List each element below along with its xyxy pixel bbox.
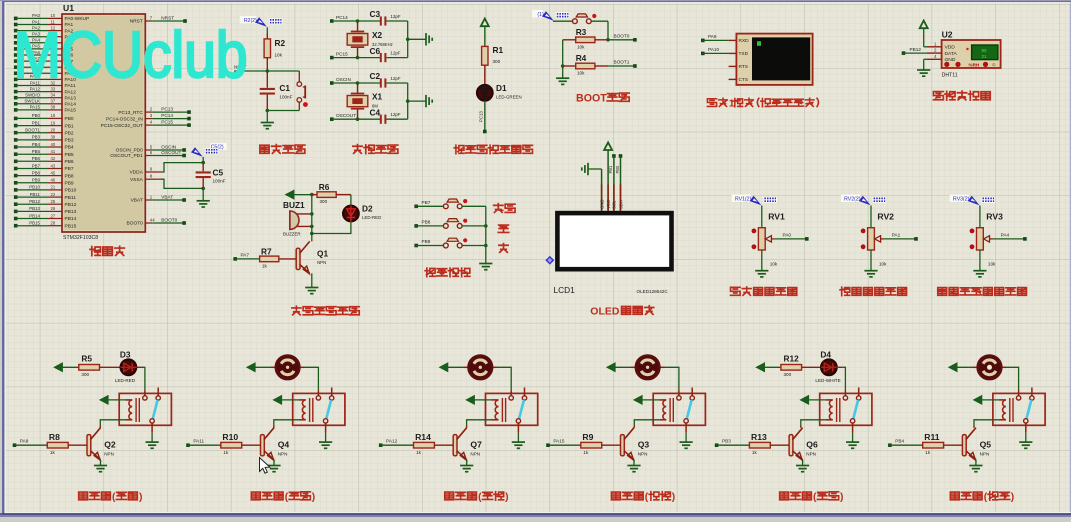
label 声光报警电路 bbox=[292, 306, 359, 315]
svg-text:PC14: PC14 bbox=[161, 113, 173, 118]
svg-text:): ) bbox=[505, 492, 508, 503]
svg-text:SCL: SCL bbox=[612, 200, 617, 209]
wire coil bottom to transistor bbox=[467, 420, 492, 426]
svg-text:1k: 1k bbox=[752, 450, 758, 455]
MCU VDDA VSSA pins bbox=[129, 167, 161, 183]
ground reset bbox=[261, 111, 274, 129]
power symbol OLED VCC bbox=[604, 142, 612, 213]
wire D4 to relay bbox=[837, 367, 846, 390]
label 继电器(补光) bbox=[780, 492, 844, 503]
svg-text:Q5: Q5 bbox=[980, 440, 992, 450]
svg-text:RV3(2): RV3(2) bbox=[953, 197, 970, 203]
svg-text:R10: R10 bbox=[222, 432, 238, 442]
ground relay contact bbox=[1019, 433, 1032, 449]
svg-text:PC15: PC15 bbox=[161, 120, 173, 125]
wire motor to relay bbox=[1006, 367, 1019, 390]
svg-text:PB14: PB14 bbox=[65, 216, 77, 222]
svg-text:(: ( bbox=[645, 492, 649, 503]
ground RV2 bbox=[864, 250, 877, 277]
resistor R4 10k bbox=[563, 53, 608, 75]
svg-text:Q6: Q6 bbox=[806, 440, 818, 450]
capacitor C5 100nF bbox=[196, 163, 226, 189]
svg-text:PC13_RTC: PC13_RTC bbox=[118, 110, 143, 116]
relay RL4 bbox=[653, 388, 705, 433]
svg-text:LED-WHITE: LED-WHITE bbox=[815, 378, 840, 383]
svg-text:RV1: RV1 bbox=[768, 212, 785, 222]
wire coil top to power bbox=[100, 396, 125, 405]
svg-text:LED-GREEN: LED-GREEN bbox=[496, 95, 522, 100]
blue marker diamond bbox=[545, 256, 554, 265]
svg-text:OLED: OLED bbox=[590, 307, 620, 318]
svg-text:PB8: PB8 bbox=[32, 170, 41, 175]
svg-text:PB1: PB1 bbox=[32, 120, 41, 125]
ground Q7 emitter bbox=[460, 460, 473, 472]
svg-text:LED-RED: LED-RED bbox=[362, 215, 381, 220]
wire coil bottom to transistor bbox=[274, 420, 299, 426]
svg-text:): ) bbox=[139, 492, 142, 503]
wire motor to relay bbox=[664, 367, 679, 390]
svg-text:PA0: PA0 bbox=[783, 233, 792, 238]
resistor R13 1k bbox=[715, 432, 789, 455]
svg-text:10k: 10k bbox=[988, 261, 996, 266]
svg-text:1k: 1k bbox=[925, 450, 931, 455]
svg-text:X1: X1 bbox=[372, 92, 383, 102]
svg-text:BOOT0: BOOT0 bbox=[614, 34, 630, 39]
svg-text:1k: 1k bbox=[416, 450, 422, 455]
power symbol DHT11 bbox=[920, 21, 928, 47]
svg-text:PA12: PA12 bbox=[386, 439, 398, 444]
resistor R12 300 bbox=[781, 354, 802, 377]
MCU U1 right pin wires NRST PC13-PC15 OSC VBAT BOOT0 bbox=[101, 16, 191, 227]
svg-text:VBAT: VBAT bbox=[131, 198, 143, 204]
svg-text:DHT11: DHT11 bbox=[942, 73, 958, 79]
label 氨气数据调节 bbox=[840, 287, 907, 295]
power symbol motor bbox=[949, 363, 974, 372]
wire D2 to buzzer rail bbox=[310, 221, 351, 235]
svg-text:300: 300 bbox=[784, 372, 792, 377]
svg-text:NPN: NPN bbox=[470, 451, 480, 456]
svg-text:300: 300 bbox=[81, 372, 89, 377]
ground Q1 emitter bbox=[305, 273, 318, 293]
svg-text:BOOT1: BOOT1 bbox=[25, 128, 40, 133]
label 设置 (set) bbox=[494, 204, 515, 213]
ground RV3 bbox=[973, 250, 986, 277]
svg-text:OSCOUT_PD1: OSCOUT_PD1 bbox=[110, 153, 143, 159]
svg-text:PB13: PB13 bbox=[65, 209, 77, 215]
svg-text:OSCOUT: OSCOUT bbox=[161, 150, 181, 155]
svg-text:PA11: PA11 bbox=[193, 439, 204, 444]
svg-text:PC13: PC13 bbox=[479, 111, 484, 122]
transistor Q3 NPN bbox=[621, 425, 650, 460]
svg-text:PB14: PB14 bbox=[29, 213, 40, 218]
svg-text:(1): (1) bbox=[537, 12, 544, 18]
ground relay contact bbox=[146, 433, 159, 449]
label 减 (minus) bbox=[499, 244, 508, 253]
wire switch to BOOT0 node bbox=[606, 21, 610, 41]
ground relay contact bbox=[319, 433, 332, 449]
svg-text:PB6: PB6 bbox=[65, 159, 74, 165]
svg-text:VCC: VCC bbox=[606, 200, 611, 209]
wire VDDA to C5 top node bbox=[161, 161, 205, 172]
wire coil bottom to transistor bbox=[801, 420, 826, 426]
power symbol R5 bbox=[54, 363, 79, 372]
svg-text:80: 80 bbox=[982, 48, 987, 53]
ground relay contact bbox=[846, 433, 859, 449]
MCU U1 left pin wires and labels bbox=[14, 13, 89, 229]
voltage probe (1) bbox=[532, 10, 569, 21]
svg-text:X2: X2 bbox=[372, 30, 383, 40]
svg-text:R1: R1 bbox=[493, 45, 504, 55]
svg-text:): ) bbox=[672, 492, 675, 503]
svg-text:R4: R4 bbox=[576, 53, 587, 63]
svg-text:10k: 10k bbox=[879, 261, 887, 266]
svg-text:PA15: PA15 bbox=[65, 108, 77, 114]
label 继电器(降温) bbox=[251, 492, 315, 503]
svg-text:PB8: PB8 bbox=[65, 173, 74, 179]
label 主芯片 (main chip) bbox=[90, 246, 124, 255]
ground BOOT bbox=[556, 66, 569, 84]
svg-text:100nF: 100nF bbox=[213, 179, 226, 184]
transistor Q5 NPN bbox=[962, 425, 991, 460]
svg-text:38: 38 bbox=[51, 105, 56, 110]
svg-text:PA8: PA8 bbox=[20, 439, 29, 444]
motor bbox=[271, 356, 304, 380]
svg-text:20: 20 bbox=[51, 128, 56, 133]
svg-text:PC14-OSC32_IN: PC14-OSC32_IN bbox=[106, 116, 143, 122]
label 二氧化碳数据调节 bbox=[938, 288, 1027, 296]
svg-text:NPN: NPN bbox=[317, 260, 326, 265]
MCUclub watermark bbox=[14, 18, 248, 91]
label 继电器(加湿) bbox=[445, 492, 509, 503]
svg-text:RTS: RTS bbox=[739, 64, 749, 70]
svg-text:22: 22 bbox=[51, 192, 56, 197]
svg-text:(: ( bbox=[813, 492, 817, 503]
wire coil top to power bbox=[466, 396, 491, 405]
LED D1 LED-GREEN bbox=[477, 83, 522, 101]
svg-text:100nF: 100nF bbox=[279, 95, 292, 100]
voltage probe RV3(2) bbox=[950, 195, 995, 206]
wire R6 to D2 bbox=[350, 195, 352, 206]
svg-text:C4: C4 bbox=[370, 107, 381, 117]
svg-text:D2: D2 bbox=[362, 204, 373, 214]
svg-text:PB11: PB11 bbox=[65, 195, 77, 201]
svg-text:PA7: PA7 bbox=[241, 253, 250, 258]
svg-text:BUZZER: BUZZER bbox=[283, 232, 301, 237]
label 加 (plus) bbox=[498, 225, 509, 232]
svg-text:PB7: PB7 bbox=[32, 163, 41, 168]
svg-text:LED-RED: LED-RED bbox=[115, 378, 136, 383]
BOOT switch push button bbox=[553, 14, 608, 24]
svg-text:PB5: PB5 bbox=[32, 149, 41, 154]
voltage probe RV1(2) bbox=[732, 195, 777, 206]
svg-text:C5: C5 bbox=[213, 168, 224, 178]
svg-text:PB9: PB9 bbox=[422, 239, 431, 244]
wire pot wiper to PA1 bbox=[884, 233, 918, 241]
svg-text:1k: 1k bbox=[583, 450, 589, 455]
svg-text:D4: D4 bbox=[820, 349, 831, 359]
mouse cursor bbox=[260, 458, 270, 474]
svg-text:): ) bbox=[1011, 492, 1014, 503]
ground Q4 emitter bbox=[267, 460, 280, 472]
label 温湿度模块 bbox=[933, 91, 990, 100]
OLED display LCD1 bbox=[554, 213, 672, 295]
svg-text:TXD: TXD bbox=[739, 51, 749, 57]
transistor Q7 NPN bbox=[453, 425, 482, 460]
crystal X2 32.768KHz with C3 C6 bbox=[330, 9, 432, 62]
svg-text:PB12: PB12 bbox=[29, 199, 40, 204]
svg-text:SWDIO: SWDIO bbox=[25, 93, 40, 98]
svg-text:PB0: PB0 bbox=[615, 165, 620, 173]
svg-text:PB0: PB0 bbox=[65, 116, 74, 122]
svg-text:MCUclub: MCUclub bbox=[14, 18, 248, 91]
power symbol for D1 bbox=[481, 19, 489, 47]
wire pot wiper to PA0 bbox=[775, 233, 809, 241]
resistor R8 1k bbox=[13, 432, 87, 455]
svg-text:BOOT1: BOOT1 bbox=[614, 60, 630, 65]
LED D4 LED-WHITE bbox=[802, 349, 841, 382]
transistor Q4 NPN bbox=[261, 425, 290, 460]
ground Q5 emitter bbox=[969, 460, 982, 472]
wire buzzer rail vertical bbox=[311, 195, 313, 241]
virtual terminal (serial window) bbox=[729, 34, 813, 85]
svg-text:PA9: PA9 bbox=[708, 34, 717, 39]
svg-text:OLED128642C: OLED128642C bbox=[637, 289, 669, 294]
svg-text:CTS: CTS bbox=[739, 77, 749, 83]
resistor R10 1k bbox=[186, 432, 260, 455]
svg-text:Q1: Q1 bbox=[317, 249, 328, 259]
svg-text:NPN: NPN bbox=[980, 451, 990, 456]
svg-text:R2: R2 bbox=[275, 38, 286, 48]
power symbol motor bbox=[247, 363, 272, 372]
svg-text:21: 21 bbox=[982, 54, 987, 59]
svg-text:BUZ1: BUZ1 bbox=[283, 200, 305, 210]
wire SDA PB0 bbox=[615, 154, 623, 213]
svg-text:PC15: PC15 bbox=[336, 51, 348, 56]
relay RL6 bbox=[993, 388, 1045, 433]
svg-text:RV2: RV2 bbox=[877, 212, 894, 222]
svg-text:(: ( bbox=[478, 492, 482, 503]
svg-text:PB7: PB7 bbox=[65, 166, 74, 172]
wire VSSA to C5 bottom node bbox=[161, 179, 205, 190]
svg-text:PB10: PB10 bbox=[29, 185, 40, 190]
svg-text:40: 40 bbox=[51, 142, 56, 147]
svg-text:OSCIN: OSCIN bbox=[161, 145, 176, 150]
svg-text:DATA: DATA bbox=[945, 51, 958, 57]
svg-text:%RH: %RH bbox=[969, 62, 980, 67]
label 继电器(除湿) bbox=[611, 492, 675, 503]
ground below C5 bbox=[197, 188, 210, 207]
wire PA9 to RXD bbox=[701, 34, 729, 42]
svg-text:PB15: PB15 bbox=[65, 223, 77, 229]
wire motor to relay bbox=[496, 367, 511, 390]
wire coil bottom to transistor bbox=[100, 420, 125, 426]
wire reset bottom bbox=[266, 109, 300, 113]
MCU U1 STM32F103C8 bbox=[62, 3, 145, 241]
svg-text:19: 19 bbox=[51, 120, 56, 125]
svg-text:PA15: PA15 bbox=[553, 439, 565, 444]
svg-text:U2: U2 bbox=[942, 30, 953, 40]
label OLED显示屏 bbox=[590, 306, 654, 318]
LED D3 LED-RED bbox=[100, 349, 137, 382]
svg-text:PB6: PB6 bbox=[32, 156, 41, 161]
svg-text:PB3: PB3 bbox=[722, 439, 731, 444]
svg-text:10k: 10k bbox=[770, 261, 778, 266]
svg-text:(: ( bbox=[984, 492, 988, 503]
svg-text:RV2(2): RV2(2) bbox=[844, 197, 861, 203]
wire pot wiper to PA4 bbox=[993, 233, 1027, 241]
resistor R3 10k bbox=[563, 27, 608, 49]
svg-text:12pF: 12pF bbox=[391, 76, 401, 81]
svg-text:SWCLK: SWCLK bbox=[24, 99, 40, 104]
ground RV1 bbox=[755, 250, 768, 277]
ground Q6 emitter bbox=[796, 460, 809, 472]
wire coil top to power bbox=[273, 396, 298, 405]
label 程序运行指示灯 (program run indicator) bbox=[454, 145, 532, 153]
svg-text:12pF: 12pF bbox=[391, 14, 401, 19]
svg-text:PC15-OSC32_OUT: PC15-OSC32_OUT bbox=[101, 123, 143, 129]
svg-text:46: 46 bbox=[51, 178, 56, 183]
wire coil top to power bbox=[800, 396, 825, 405]
svg-text:VDD: VDD bbox=[945, 45, 956, 51]
ground OLED GND pin bbox=[582, 163, 602, 214]
svg-text:RV3: RV3 bbox=[986, 212, 1003, 222]
svg-text:PC13: PC13 bbox=[161, 107, 173, 112]
svg-text:⊙: ⊙ bbox=[992, 62, 996, 67]
svg-text:41: 41 bbox=[51, 149, 56, 154]
voltage probe R2(2) bbox=[240, 16, 283, 27]
svg-text:NPN: NPN bbox=[806, 451, 816, 456]
svg-text:GND: GND bbox=[599, 199, 604, 209]
wire coil top to power bbox=[634, 396, 659, 405]
svg-text:PB2: PB2 bbox=[65, 130, 74, 136]
svg-text:PA15: PA15 bbox=[30, 105, 41, 110]
svg-text:PB4: PB4 bbox=[895, 439, 904, 444]
svg-text:PA14: PA14 bbox=[65, 102, 77, 108]
buzzer BUZ1 bbox=[283, 200, 314, 237]
svg-text:PA1: PA1 bbox=[892, 233, 901, 238]
svg-text:VSSA: VSSA bbox=[130, 177, 144, 183]
voltage probe RV2(2) bbox=[841, 195, 886, 206]
ground DHT11 bbox=[917, 59, 930, 76]
svg-text:27: 27 bbox=[51, 213, 56, 218]
push button PB7 bbox=[414, 199, 485, 209]
label 光照数据调节 bbox=[731, 287, 797, 295]
wire R3 to R4 left rail bbox=[561, 40, 565, 68]
svg-text:R7: R7 bbox=[261, 246, 272, 256]
svg-text:C3: C3 bbox=[370, 9, 381, 19]
svg-text:PB15: PB15 bbox=[29, 221, 40, 226]
svg-text:Q3: Q3 bbox=[638, 440, 650, 450]
svg-text:STM32F103C8: STM32F103C8 bbox=[63, 235, 98, 241]
svg-text:OSCIN_PD0: OSCIN_PD0 bbox=[116, 148, 144, 154]
svg-text:BOOT0: BOOT0 bbox=[161, 218, 177, 223]
svg-text:C6: C6 bbox=[370, 46, 381, 56]
svg-text:1k: 1k bbox=[262, 264, 268, 269]
resistor R7 1k bbox=[233, 246, 296, 268]
wire PA10 to TXD bbox=[701, 47, 729, 55]
ground buttons bbox=[479, 264, 492, 270]
svg-text:44: 44 bbox=[150, 218, 155, 223]
wire coil bottom to transistor bbox=[974, 420, 999, 426]
svg-text:1k: 1k bbox=[50, 450, 56, 455]
svg-text:26: 26 bbox=[51, 206, 56, 211]
svg-text:PB11: PB11 bbox=[30, 192, 41, 197]
svg-text:PB4: PB4 bbox=[32, 142, 41, 147]
push button PB8 bbox=[414, 219, 485, 229]
svg-text:Q2: Q2 bbox=[104, 440, 116, 450]
voltage probe C5(2) bbox=[191, 143, 227, 163]
svg-text:PB5: PB5 bbox=[65, 152, 74, 158]
svg-text:VBAT: VBAT bbox=[161, 195, 173, 200]
svg-text:PB1: PB1 bbox=[65, 123, 74, 129]
svg-text:R13: R13 bbox=[751, 432, 767, 442]
resistor R14 1k bbox=[379, 432, 453, 455]
wire BOOT1 bbox=[608, 60, 637, 68]
label 继电器(通风) bbox=[950, 492, 1014, 503]
relay RL2 bbox=[293, 388, 345, 433]
svg-text:SDA: SDA bbox=[618, 200, 623, 209]
power symbol buzzer bbox=[286, 190, 314, 199]
svg-text:12pF: 12pF bbox=[391, 112, 401, 117]
motor bbox=[631, 356, 664, 380]
potentiometer RV2 10k bbox=[861, 206, 894, 267]
svg-text:PB9: PB9 bbox=[65, 181, 74, 187]
svg-text:NPN: NPN bbox=[104, 451, 114, 456]
svg-text:R5: R5 bbox=[81, 354, 92, 364]
label 继电器(加热) bbox=[79, 492, 143, 503]
capacitor C1 100nF bbox=[260, 71, 293, 111]
wire button common rail bbox=[484, 206, 488, 263]
svg-text:PB9: PB9 bbox=[32, 178, 41, 183]
wire coil top to power bbox=[974, 396, 999, 405]
svg-text:(: ( bbox=[285, 492, 289, 503]
svg-text:(: ( bbox=[112, 492, 116, 503]
svg-text:Q4: Q4 bbox=[278, 440, 290, 450]
crystal X1 8M with C2 C4 bbox=[330, 71, 432, 124]
svg-text:PB13: PB13 bbox=[29, 206, 40, 211]
motor bbox=[464, 356, 497, 380]
resistor R6 300 bbox=[312, 182, 351, 204]
svg-text:R8: R8 bbox=[49, 432, 60, 442]
resistor R1 300 bbox=[482, 45, 504, 85]
svg-text:25: 25 bbox=[51, 199, 56, 204]
label 独立按键 (independent keys) bbox=[425, 268, 470, 277]
svg-text:C2: C2 bbox=[370, 71, 381, 81]
svg-text:PB4: PB4 bbox=[65, 145, 74, 151]
svg-text:1k: 1k bbox=[223, 450, 229, 455]
transistor Q1 NPN bbox=[296, 240, 328, 274]
svg-text:34: 34 bbox=[51, 93, 56, 98]
LED D2 LED-RED bbox=[343, 204, 381, 222]
resistor R11 1k bbox=[888, 432, 962, 455]
wire node NRST bbox=[234, 65, 299, 73]
svg-text:): ) bbox=[840, 492, 843, 503]
svg-text:28: 28 bbox=[51, 221, 56, 226]
svg-text:45: 45 bbox=[51, 170, 56, 175]
svg-text:RV1(2): RV1(2) bbox=[735, 197, 752, 203]
power symbol motor bbox=[607, 363, 632, 372]
svg-text:PC14: PC14 bbox=[336, 15, 348, 20]
wire D3 to relay bbox=[136, 367, 145, 390]
svg-text:NPN: NPN bbox=[638, 451, 648, 456]
ground Q3 emitter bbox=[627, 460, 640, 472]
svg-text:R11: R11 bbox=[924, 432, 940, 442]
svg-text:R3: R3 bbox=[576, 27, 587, 37]
wire coil bottom to transistor bbox=[634, 420, 659, 426]
wire D1 to PC13 terminal bbox=[479, 101, 487, 134]
motor bbox=[973, 356, 1006, 380]
wire BOOT0 bbox=[608, 34, 637, 42]
